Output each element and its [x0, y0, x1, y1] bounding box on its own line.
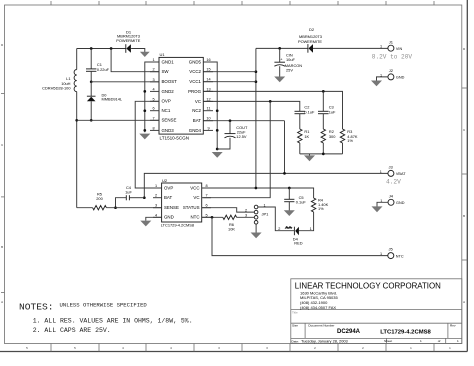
node C1 top junction [90, 47, 93, 50]
wire R4 bottom to LED [299, 212, 314, 231]
wire VCC1 pin14 [203, 81, 256, 83]
wire J4 to ground [377, 202, 388, 206]
svg-text:15: 15 [206, 68, 210, 72]
svg-text:1: 1 [264, 203, 266, 207]
svg-text:Title: Title [292, 311, 298, 315]
svg-text:5: 5 [205, 213, 207, 217]
node VC link tap [269, 100, 272, 103]
svg-text:10K: 10K [228, 227, 235, 232]
U2 left pin numbers [155, 184, 157, 217]
svg-text:JP1: JP1 [262, 212, 270, 217]
wire CIN riser [279, 48, 281, 62]
svg-text:BOOST: BOOST [162, 79, 178, 84]
node U2 BAT C4 junction [143, 196, 146, 199]
node L1-SENSE junction [75, 119, 78, 122]
border zone letters left [1, 44, 3, 304]
wire U1 left ground bus [145, 62, 159, 132]
svg-text:POWERMITE: POWERMITE [116, 38, 140, 43]
inductor L1 [74, 49, 77, 92]
node BOOST junction [90, 80, 93, 83]
svg-text:1: 1 [152, 58, 154, 62]
svg-text:Tuesday, January 28, 2003: Tuesday, January 28, 2003 [301, 338, 348, 343]
svg-text:10: 10 [206, 117, 210, 121]
node VCC-VIN riser joint [255, 187, 258, 190]
svg-text:+: + [280, 57, 283, 62]
JP1 labels [262, 203, 270, 216]
resistor R6 [223, 215, 237, 219]
svg-text:6: 6 [205, 204, 207, 208]
ground under U1 right bus [212, 152, 223, 158]
wire VIN riser to U2 VCC [255, 48, 257, 188]
svg-text:2: 2 [245, 208, 247, 212]
svg-text:D2: D2 [309, 27, 315, 32]
svg-text:GND: GND [396, 201, 405, 205]
C1 labels [97, 62, 110, 72]
wire R5 to U2 SENSE [106, 207, 161, 209]
svg-text:LINEAR TECHNOLOGY CORPORATION: LINEAR TECHNOLOGY CORPORATION [295, 282, 441, 291]
svg-text:3: 3 [245, 214, 247, 218]
connector J4 [388, 199, 394, 205]
border frame outer right line [466, 0, 468, 352]
svg-text:GND3: GND3 [162, 128, 175, 133]
resistor R5 [93, 206, 107, 210]
wire C5 riser [288, 188, 290, 199]
led D4 [286, 227, 299, 236]
svg-text:8: 8 [205, 184, 207, 188]
wire C5 to ground [288, 202, 290, 211]
J2 labels [380, 68, 405, 80]
C2 labels [304, 105, 315, 115]
capacitor C4 [126, 195, 129, 200]
svg-text:STATUS: STATUS [183, 205, 200, 210]
border zone letters right [463, 48, 465, 304]
svg-text:4: 4 [152, 87, 154, 91]
diode D2 [308, 44, 313, 53]
capacitor C3 [318, 111, 329, 113]
U1 left pin stubs [150, 62, 159, 130]
svg-text:C: C [463, 129, 465, 132]
border zone ticks top [51, 1, 434, 5]
wire U2 VCC row [202, 188, 314, 198]
U1 left pin numbers [152, 58, 154, 130]
capacitor C5 [284, 199, 294, 201]
svg-text:VCC2: VCC2 [189, 69, 201, 74]
wire U2 GND to ground [146, 217, 162, 221]
svg-text:J1: J1 [389, 39, 394, 44]
svg-text:1: 1 [310, 227, 312, 231]
svg-text:1uF: 1uF [329, 109, 336, 114]
svg-text:GND2: GND2 [162, 89, 175, 94]
wire D0 top [90, 82, 92, 96]
C3 labels [329, 105, 336, 115]
border frame outer bottom line [0, 351, 467, 353]
connector J1 [388, 45, 394, 51]
node gnd bus pin6 [143, 109, 146, 112]
node VIN-CIN junction [278, 47, 281, 50]
wire D0 bottom [90, 101, 92, 120]
wire LED to JP1 pin1 [258, 207, 294, 231]
CIN labels [285, 53, 302, 73]
sheet numbers [420, 339, 459, 343]
svg-text:NC2: NC2 [192, 108, 201, 113]
svg-text:7: 7 [152, 116, 154, 120]
wire L1 bottom long vertical to R5 [76, 92, 78, 208]
U2 left pin stubs [153, 188, 162, 217]
svg-text:4: 4 [170, 347, 172, 350]
wire R1 bottom [299, 143, 301, 154]
U2 right pin names [183, 185, 200, 219]
svg-text:VC: VC [195, 99, 201, 104]
wire JP1 bottom to ground [255, 224, 257, 233]
J4 labels [380, 193, 404, 205]
svg-text:3: 3 [152, 78, 154, 82]
U2 left pin names [164, 185, 179, 219]
svg-text:1: 1 [380, 45, 382, 49]
R5 labels [96, 191, 103, 201]
R6 labels [228, 222, 235, 232]
svg-text:5: 5 [26, 347, 28, 350]
svg-text:OVP: OVP [164, 185, 173, 190]
svg-text:J3: J3 [389, 165, 394, 170]
wire R2 bottom [322, 143, 324, 154]
node BAT riser joint [283, 172, 286, 175]
wire BAT horizontal to J3 [144, 173, 388, 197]
svg-text:J4: J4 [389, 193, 394, 198]
svg-text:Rev: Rev [450, 324, 456, 328]
node D0-SENSE junction [90, 119, 93, 122]
svg-text:2: 2 [152, 68, 154, 72]
header JP1 [254, 205, 258, 224]
node gnd bus pin8 [143, 129, 146, 132]
svg-text:CDRH5D28-100: CDRH5D28-100 [42, 86, 71, 91]
C4 labels [125, 185, 132, 195]
U1 left pin names [162, 59, 178, 132]
node VCC2 tap [255, 70, 258, 73]
J1 labels [380, 39, 402, 51]
connector J5 [388, 253, 394, 259]
svg-text:0.22uF: 0.22uF [97, 67, 110, 72]
U1 right pin stubs [203, 62, 213, 130]
diode D1 [126, 44, 131, 53]
U1 right pin names [188, 59, 202, 132]
wire OVP link U1 pin5 to U2 pin1 [135, 101, 161, 188]
wire D1 anode to gnd stub [131, 49, 145, 53]
R4 labels [318, 198, 329, 212]
wire C3 to R2 [322, 114, 324, 129]
node gnd bus pin4 [143, 90, 146, 93]
svg-text:D: D [463, 48, 465, 51]
svg-text:GND: GND [164, 215, 174, 220]
svg-text:3: 3 [155, 204, 157, 208]
svg-text:200: 200 [96, 196, 103, 201]
svg-text:RED: RED [294, 240, 302, 245]
svg-text:SENSE: SENSE [162, 118, 177, 123]
svg-text:Sheet: Sheet [384, 339, 392, 343]
svg-text:J2: J2 [389, 68, 394, 73]
svg-text:of: of [438, 339, 441, 343]
U2 right pin stubs [202, 188, 211, 217]
svg-text:LTC1729-4.2CMS8: LTC1729-4.2CMS8 [380, 329, 431, 335]
ground under CIN [274, 77, 285, 83]
svg-text:NTC: NTC [396, 254, 404, 258]
border zone ticks left [1, 94, 5, 293]
node SW riser junction [110, 47, 113, 50]
wire COUT top [229, 121, 231, 134]
svg-text:1: 1 [380, 170, 382, 174]
resistor R3 [340, 129, 344, 143]
svg-text:1: 1 [380, 252, 382, 256]
svg-text:Document Number: Document Number [308, 324, 334, 328]
svg-text:NC1: NC1 [162, 108, 171, 113]
svg-text:4: 4 [122, 347, 124, 350]
node C5 tap [288, 187, 291, 190]
svg-text:U2: U2 [162, 178, 168, 183]
wire SW riser [111, 49, 159, 72]
wire prog ground rail [300, 153, 343, 155]
svg-text:GND5: GND5 [189, 59, 202, 64]
J3 labels [380, 165, 406, 177]
wire VC link vertical to U2 [203, 101, 270, 197]
svg-text:4.2V: 4.2V [386, 178, 401, 185]
svg-text:16: 16 [206, 58, 210, 62]
svg-text:VBAT: VBAT [396, 172, 406, 176]
wire VC pin12 row [203, 101, 299, 111]
svg-text:1%: 1% [318, 206, 324, 211]
svg-text:300: 300 [329, 134, 336, 139]
svg-text:12: 12 [206, 97, 210, 101]
capacitor COUT [225, 134, 236, 138]
svg-text:MMBD914L: MMBD914L [102, 97, 123, 102]
node COUT tap [229, 119, 232, 122]
svg-text:Size: Size [292, 324, 298, 328]
wire C3 riser [322, 91, 324, 111]
J5 labels [380, 247, 404, 259]
ground under U2 GND [140, 221, 151, 227]
svg-text:11: 11 [207, 107, 211, 111]
svg-text:B: B [1, 246, 3, 249]
D2 labels [298, 27, 322, 44]
svg-text:1: 1 [155, 184, 157, 188]
D4 labels [293, 236, 303, 245]
svg-text:1: 1 [449, 347, 451, 350]
date row [292, 339, 441, 343]
svg-text:(408) 434-0507 FAX: (408) 434-0507 FAX [300, 305, 336, 310]
wire U2 NTC row [202, 216, 223, 218]
resistor R1 [298, 129, 302, 143]
svg-text:NTC: NTC [190, 215, 199, 220]
wire BAT pin10 row [203, 120, 284, 122]
wire R6 to JP1 pin3 [237, 216, 255, 218]
connector J3 [388, 170, 394, 176]
svg-text:1. ALL RES. VALUES ARE IN OH: 1. ALL RES. VALUES ARE IN OHMS, 1/8W, 5%… [33, 317, 193, 324]
svg-text:25V: 25V [286, 67, 293, 72]
wire PROG pin13 row [203, 91, 342, 129]
wire VCC2 pin15 [203, 71, 256, 73]
node rail C3R2 [322, 153, 325, 156]
svg-text:2: 2 [314, 347, 316, 350]
svg-text:J5: J5 [389, 247, 394, 252]
border zone numbers bottom [26, 347, 451, 350]
svg-text:U1: U1 [160, 52, 166, 57]
svg-text:1: 1 [457, 339, 459, 343]
ground under C5 [284, 210, 295, 216]
wire C2 to R1 [299, 114, 301, 129]
ground under U1 left bus [139, 134, 150, 140]
svg-text:12.5V: 12.5V [236, 134, 247, 139]
svg-text:9: 9 [207, 126, 209, 130]
R1 labels [304, 129, 309, 139]
svg-text:0.1uF: 0.1uF [304, 109, 315, 114]
node right bus COUT return [216, 148, 219, 151]
wire J2 to ground [377, 77, 388, 81]
wire BOOST pin3 [91, 81, 159, 83]
svg-text:SW: SW [162, 69, 170, 74]
ground under JP1 [251, 233, 262, 239]
C5 labels [296, 195, 307, 204]
R2 labels [329, 129, 336, 139]
svg-text:13: 13 [206, 87, 210, 91]
wire top rail L1 to D1 [77, 48, 126, 50]
svg-text:1: 1 [420, 339, 422, 343]
wire COUT bottom return [217, 138, 230, 149]
svg-text:DC294A: DC294A [337, 329, 361, 335]
svg-text:5: 5 [152, 97, 154, 101]
D0 labels [102, 92, 123, 101]
svg-text:5: 5 [74, 347, 76, 350]
wire C1 bottom to BOOST [90, 71, 92, 82]
diode D0 [87, 96, 96, 101]
wire R3 bottom [342, 143, 344, 154]
svg-text:D: D [1, 44, 3, 47]
node C3 tap [322, 90, 325, 93]
svg-text:8: 8 [152, 126, 154, 130]
svg-text:UNLESS OTHERWISE SPECIFIED: UNLESS OTHERWISE SPECIFIED [60, 302, 148, 309]
ground under J2 [371, 81, 382, 87]
title block outline [291, 279, 462, 344]
svg-text:1: 1 [410, 347, 412, 350]
D4 pin numbers [278, 227, 311, 231]
connector J2 [388, 74, 394, 80]
svg-text:1uF: 1uF [125, 189, 132, 194]
svg-text:4: 4 [155, 213, 157, 217]
svg-text:7: 7 [205, 194, 207, 198]
node NTC junction [211, 216, 214, 219]
border zone ticks right [462, 88, 468, 260]
capacitor C2 [295, 111, 306, 113]
svg-text:B: B [463, 215, 465, 218]
svg-text:2: 2 [362, 347, 364, 350]
wire C4 right leg [129, 197, 144, 199]
IC U1 box [159, 57, 203, 134]
wire D2 anode to J1 [313, 47, 388, 49]
wire BAT riser down [284, 121, 286, 174]
R3 labels [347, 129, 358, 143]
svg-text:1K: 1K [304, 134, 309, 139]
wire CIN to ground [279, 66, 281, 77]
border zone ticks bottom [51, 344, 434, 352]
node VCC1 tap [255, 80, 258, 83]
svg-text:VIN: VIN [396, 47, 403, 51]
svg-text:VCC: VCC [190, 185, 199, 190]
svg-text:GND4: GND4 [189, 128, 202, 133]
svg-text:3: 3 [218, 347, 220, 350]
svg-text:VCC1: VCC1 [189, 79, 201, 84]
svg-text:8.2V to 20V: 8.2V to 20V [372, 54, 413, 61]
resistor R4 [311, 198, 315, 212]
company address [300, 290, 338, 309]
svg-text:GND: GND [396, 76, 405, 80]
node right bus pin11 [216, 109, 219, 112]
svg-text:POWERMITE: POWERMITE [298, 39, 322, 44]
svg-text:1%: 1% [347, 138, 353, 143]
U1 right pin numbers [206, 58, 210, 130]
COUT labels [236, 125, 248, 139]
svg-text:3: 3 [266, 347, 268, 350]
svg-text:0.1uF: 0.1uF [296, 199, 307, 204]
svg-text:BAT: BAT [193, 118, 202, 123]
ground under J4 [372, 206, 383, 212]
node right bus pin9 [216, 129, 219, 132]
L1 labels [42, 76, 71, 91]
svg-text:BAT: BAT [164, 195, 173, 200]
svg-text:GND1: GND1 [162, 59, 175, 64]
svg-text:VC: VC [193, 195, 199, 200]
capacitor C1 [86, 69, 96, 71]
svg-text:2: 2 [155, 194, 157, 198]
D1 labels [116, 30, 140, 44]
svg-text:LT1510-5CGN: LT1510-5CGN [160, 136, 190, 141]
svg-text:NOTES:: NOTES: [19, 302, 54, 313]
svg-text:A: A [1, 301, 3, 304]
svg-text:Date:: Date: [292, 339, 300, 343]
U2 right pin numbers [205, 184, 207, 217]
wire VIN top rail left of D2 [256, 47, 308, 49]
svg-text:OVP: OVP [162, 99, 171, 104]
svg-text:SENSE: SENSE [164, 205, 179, 210]
ground under D1 [140, 52, 150, 57]
svg-text:A: A [463, 301, 465, 304]
wire C1 top [90, 49, 92, 69]
svg-text:14: 14 [206, 78, 210, 82]
wire R5 left [77, 207, 93, 209]
size row labels [292, 324, 456, 328]
svg-text:6: 6 [152, 107, 154, 111]
svg-text:10uF: 10uF [286, 57, 295, 62]
wire NTC down to J5 [212, 217, 388, 255]
svg-text:LTC1729-4.2CMS8: LTC1729-4.2CMS8 [161, 222, 194, 227]
resistor R2 [321, 129, 325, 143]
svg-text:PROG: PROG [188, 89, 202, 94]
capacitor CIN [274, 57, 285, 67]
wire U2 STATUS to JP1 pin2 [202, 208, 255, 212]
wire U1 right ground bus [203, 62, 217, 149]
wire SENSE row to U1 pin7 [77, 119, 159, 121]
node C4-SENSE junction [114, 206, 117, 209]
ground under prog rail [304, 154, 315, 161]
svg-text:2. ALL CAPS ARE 25V.: 2. ALL CAPS ARE 25V. [33, 327, 111, 334]
IC U2 box [162, 183, 202, 222]
wire C4 left leg [116, 198, 127, 208]
svg-text:C: C [1, 144, 3, 147]
